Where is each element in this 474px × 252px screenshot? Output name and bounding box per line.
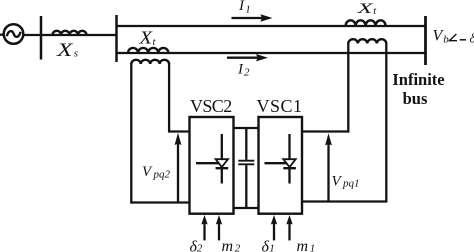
svg-text:I: I [237, 62, 244, 78]
svg-text:s: s [74, 48, 78, 60]
svg-text:X: X [138, 27, 153, 47]
svg-text:2: 2 [197, 243, 203, 252]
svg-text:I: I [238, 0, 245, 14]
svg-text:δ: δ [262, 238, 270, 252]
svg-text:m: m [297, 238, 309, 252]
svg-text:2: 2 [244, 67, 250, 79]
svg-text:V: V [332, 174, 343, 190]
svg-text:1: 1 [245, 4, 251, 16]
svg-text:m: m [222, 238, 234, 252]
svg-text:t: t [153, 37, 157, 48]
svg-text:t: t [373, 6, 377, 17]
svg-text:Infinite: Infinite [392, 70, 444, 89]
svg-text:X: X [56, 41, 74, 61]
svg-text:1: 1 [310, 243, 316, 252]
svg-text:pq1: pq1 [342, 178, 360, 190]
svg-text:δ: δ [470, 31, 474, 46]
svg-text:pq2: pq2 [153, 169, 171, 181]
svg-text:1: 1 [269, 243, 275, 252]
svg-text:X: X [356, 1, 374, 17]
svg-text:V: V [142, 164, 153, 180]
svg-text:VSC1: VSC1 [256, 96, 302, 116]
svg-text:b: b [443, 33, 449, 45]
svg-text:VSC2: VSC2 [190, 96, 232, 116]
svg-text:2: 2 [235, 243, 241, 252]
svg-text:bus: bus [403, 89, 428, 108]
